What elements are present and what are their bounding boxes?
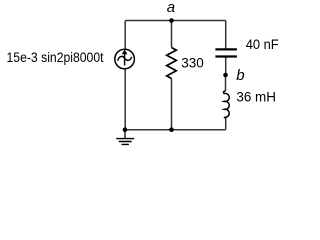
wire middle branch lower xyxy=(171,79,173,130)
wire left branch upper xyxy=(124,21,126,50)
junction dot bottom left xyxy=(123,127,128,132)
wire top horizontal xyxy=(125,20,226,22)
wire capacitor to node b xyxy=(225,58,227,76)
wire node b to inductor xyxy=(225,75,227,91)
current source I1 circle xyxy=(115,49,135,69)
node a dot xyxy=(169,18,174,23)
node b dot xyxy=(223,73,228,78)
inductor L coil xyxy=(223,91,229,119)
wire inductor to bottom xyxy=(225,118,227,130)
resistor R 330 zigzag xyxy=(167,48,177,79)
svg-text:36 mH: 36 mH xyxy=(236,89,276,105)
svg-text:b: b xyxy=(236,67,244,84)
junction dot bottom middle xyxy=(169,127,174,132)
svg-text:330: 330 xyxy=(181,55,204,71)
svg-text:40 nF: 40 nF xyxy=(246,36,279,52)
ground bars xyxy=(116,139,134,145)
wire right branch upper xyxy=(225,21,227,49)
capacitor C plates xyxy=(215,49,237,56)
current source I1 arrow xyxy=(124,53,126,66)
wire middle branch upper xyxy=(171,21,173,48)
ground stem xyxy=(124,130,126,139)
wire left branch lower xyxy=(124,69,126,130)
svg-text:15e-3 sin2pi8000t: 15e-3 sin2pi8000t xyxy=(7,49,104,65)
svg-text:a: a xyxy=(167,0,175,16)
wire bottom horizontal xyxy=(125,129,226,131)
current source I1 sine tilde xyxy=(118,56,132,60)
